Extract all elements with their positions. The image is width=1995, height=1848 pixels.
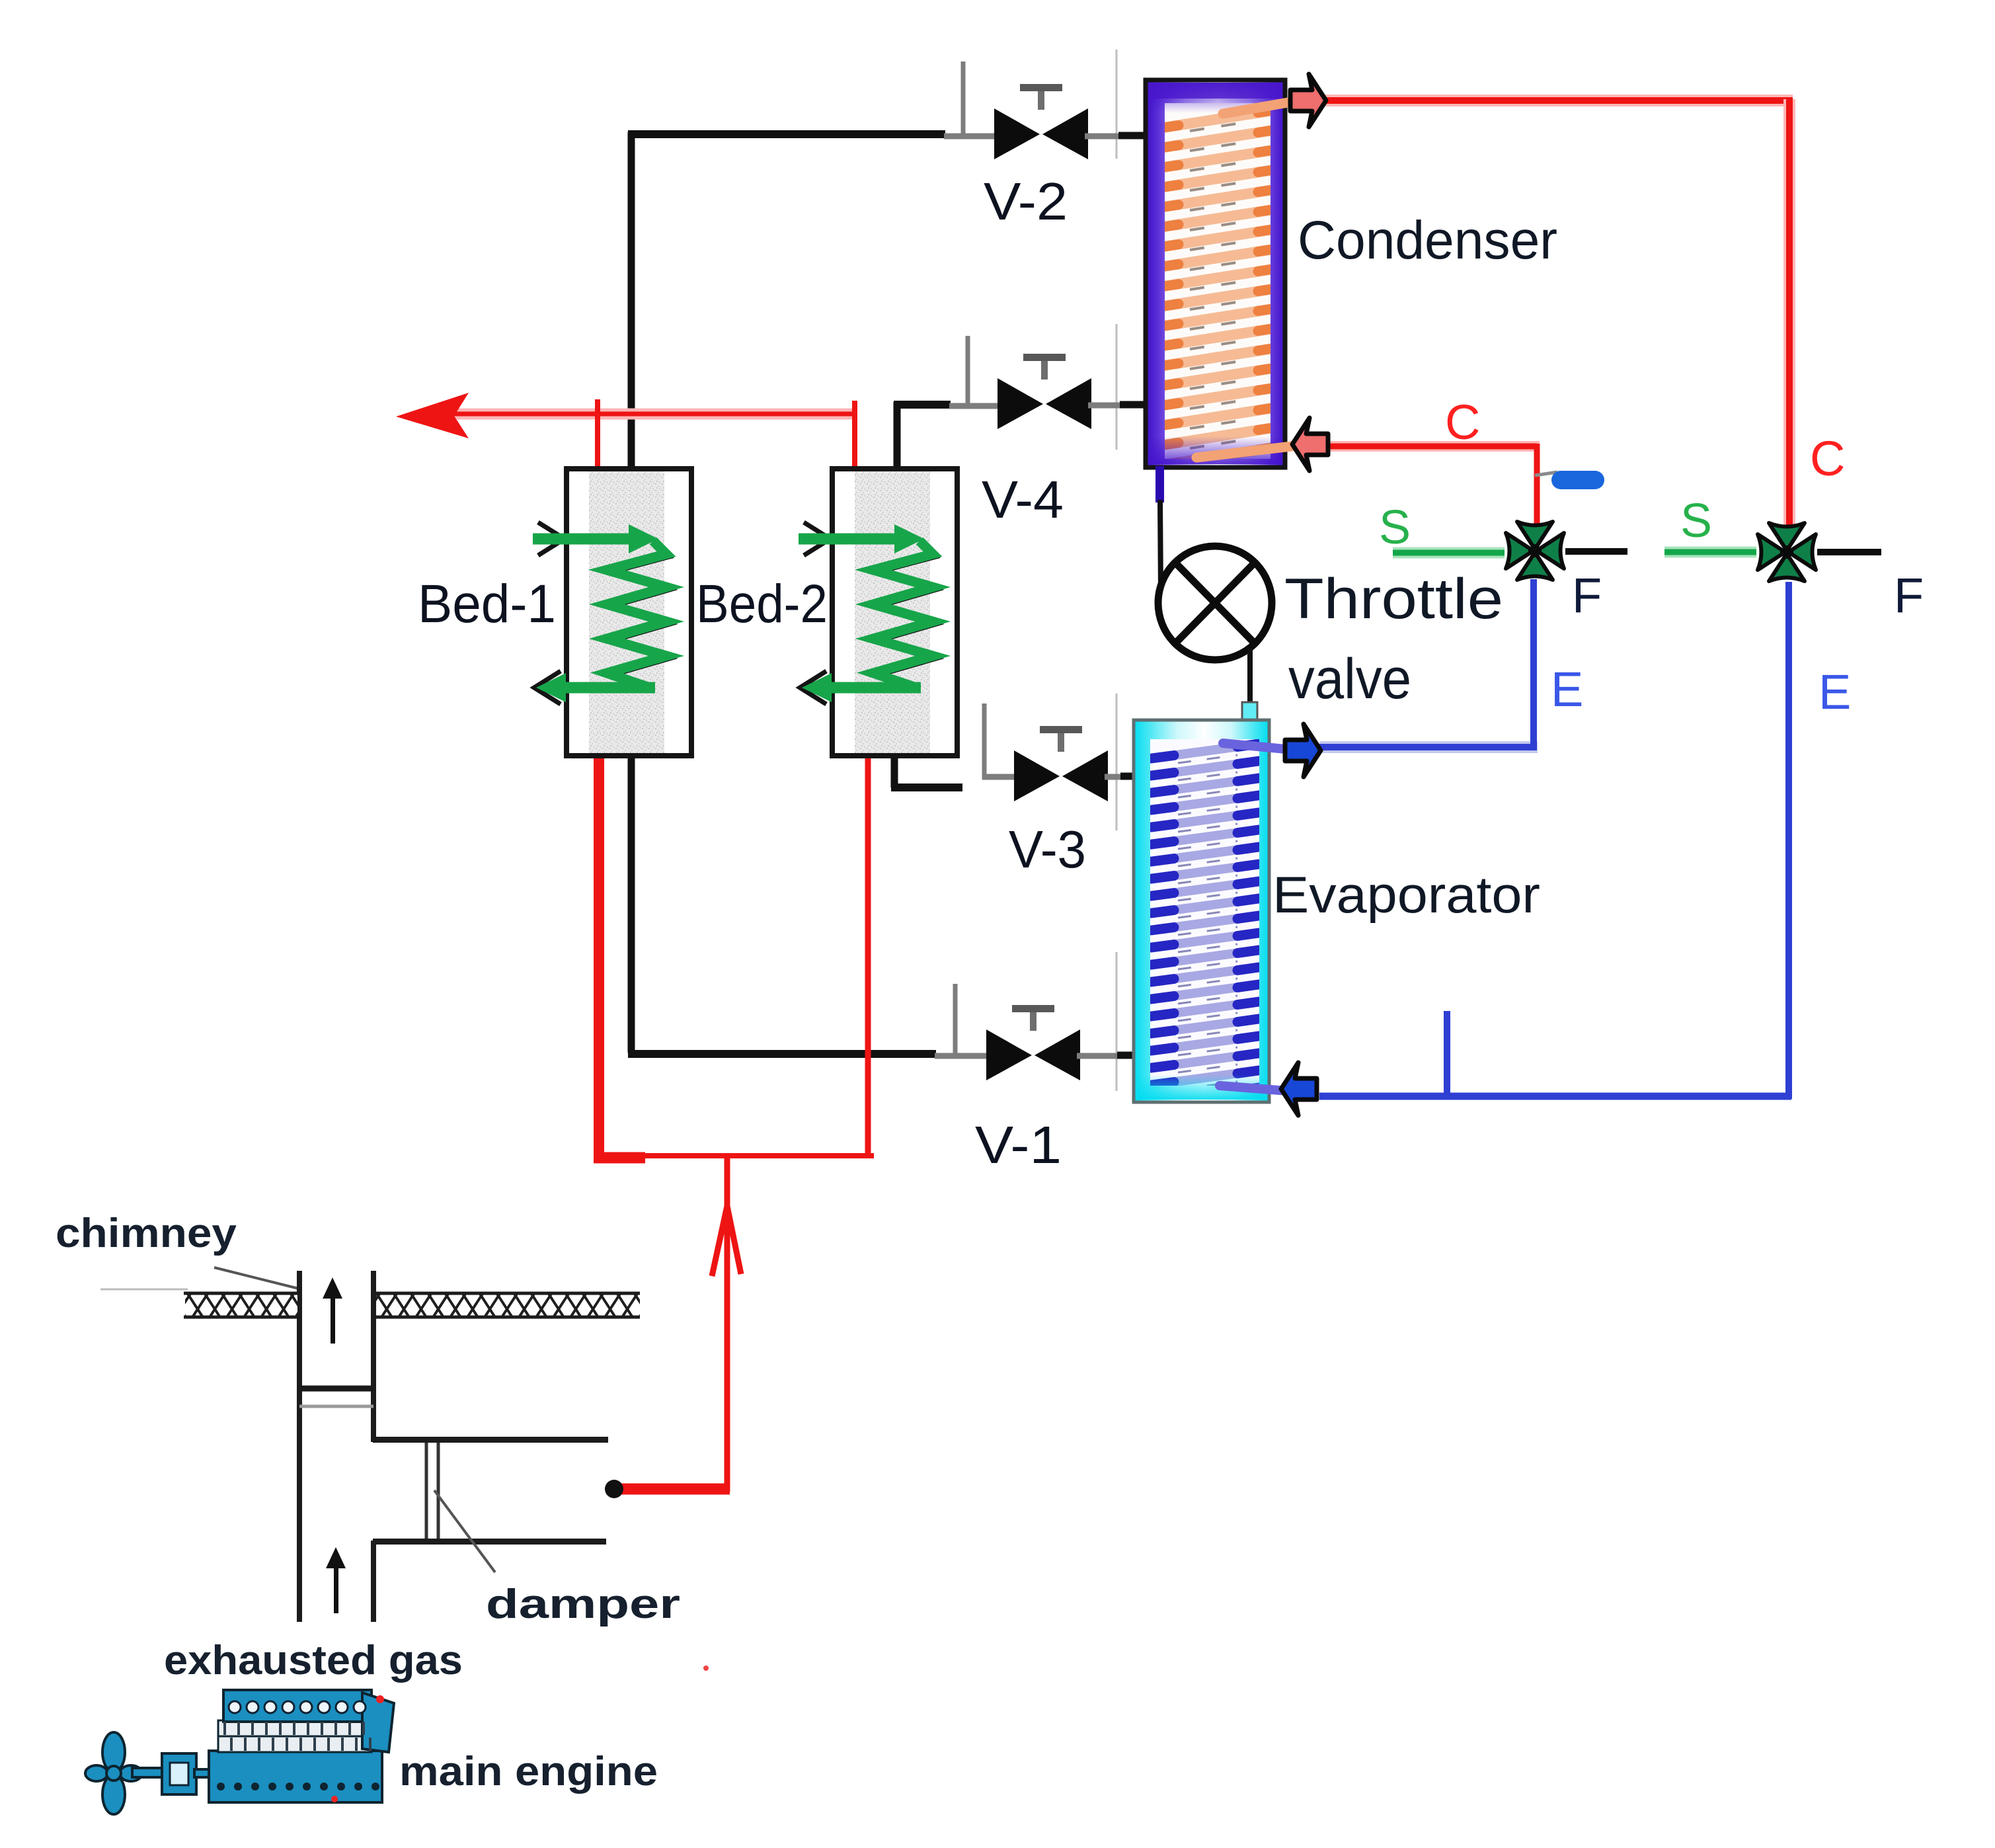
wire gray elbow before V-3 xyxy=(982,703,1019,780)
adsorbent bed Bed-2 vessel xyxy=(832,469,957,756)
valve V-4 xyxy=(997,354,1091,429)
wire chimney damper plates xyxy=(299,1388,373,1406)
wire red pipe condenser bottom inlet from valve-1 riser xyxy=(1327,444,1540,524)
wire blue pipe valve-2 down to evaporator bottom xyxy=(1319,582,1791,1099)
wire Bed-1 green outlet arrow xyxy=(534,671,655,704)
four-way valve right xyxy=(1758,523,1816,581)
svg-text:Evaporator: Evaporator xyxy=(1272,865,1540,924)
coil evaporator helix xyxy=(1150,739,1259,1102)
wire red pipe Bed-2 bottom down xyxy=(865,739,871,1157)
svg-text:exhausted gas: exhausted gas xyxy=(164,1638,463,1683)
condenser top and bottom purple bands xyxy=(1149,83,1282,464)
svg-text:Bed-2: Bed-2 xyxy=(696,574,828,634)
wire red pipe Bed-1 bottom down xyxy=(594,744,604,1158)
wire black pipe Bed-1 bottom to V-1 xyxy=(628,756,936,1054)
wire condenser coil inlet tube bottom xyxy=(1196,446,1297,458)
wire gray elbow before V-1 xyxy=(935,984,989,1058)
wire green S line into valve-1 xyxy=(1393,547,1505,559)
wire black pipe Bed-1 top to V-2 xyxy=(628,132,945,471)
wire black pipe Bed-2 top to V-4 xyxy=(894,402,951,471)
wire branch damper xyxy=(426,1443,438,1539)
wire chimney gas up-arrow upper xyxy=(323,1277,342,1344)
exhaust branch duct walls xyxy=(373,1437,608,1545)
evaporator bottom cyan band xyxy=(1137,1074,1266,1100)
wire black F line from valve-1 xyxy=(1565,548,1627,555)
svg-text:C: C xyxy=(1810,431,1845,486)
svg-text:F: F xyxy=(1894,568,1924,623)
svg-text:damper: damper xyxy=(486,1582,680,1627)
svg-text:S: S xyxy=(1680,495,1712,547)
wire red hot-water top bus with left arrow xyxy=(396,393,857,438)
node evaporator top outlet arrow xyxy=(1285,724,1321,777)
wire gray elbow before V-4 xyxy=(949,336,1002,409)
valve V-2 xyxy=(994,84,1088,159)
wire condenser coil outlet tube top xyxy=(1223,100,1300,114)
svg-text:chimney: chimney xyxy=(56,1211,237,1256)
evaporator vessel xyxy=(1134,702,1269,1102)
wire red riser from exhaust duct with up arrow xyxy=(615,1153,741,1492)
svg-text:S: S xyxy=(1379,501,1411,554)
wire red stub into Bed-2 top xyxy=(852,401,857,471)
svg-text:Throttle: Throttle xyxy=(1284,567,1503,631)
svg-text:E: E xyxy=(1551,662,1583,717)
svg-text:V-4: V-4 xyxy=(982,470,1064,529)
node condenser top outlet arrow xyxy=(1290,74,1326,127)
wire evaporator coil inlet tube bottom xyxy=(1220,1086,1288,1091)
main engine details xyxy=(217,1695,384,1802)
wire Bed-1 green inlet arrow xyxy=(533,522,658,555)
wire blue pipe evaporator top outlet to valve-1 xyxy=(1319,579,1538,750)
wire V-4 to condenser xyxy=(1088,405,1148,405)
deck hatched band left xyxy=(184,1293,297,1317)
wire condenser bottom spout xyxy=(1155,466,1164,594)
wire red stub into Bed-1 top xyxy=(595,399,600,472)
condenser vessel xyxy=(1146,80,1285,467)
wire V-3 to evaporator xyxy=(1105,776,1136,777)
wire chimney gas up-arrow lower xyxy=(326,1547,346,1613)
valve V-3 xyxy=(1014,726,1108,801)
svg-text:Bed-1: Bed-1 xyxy=(418,574,556,634)
four-way valve left xyxy=(1506,522,1564,580)
wire green S line into valve-2 xyxy=(1664,547,1756,558)
wire chimney pointer line xyxy=(214,1267,301,1289)
wire black pipe Bed-2 bottom to V-3 xyxy=(891,756,962,787)
wire blue stub on bottom line xyxy=(1444,1011,1450,1096)
svg-text:Condenser: Condenser xyxy=(1298,210,1557,270)
svg-text:C: C xyxy=(1445,395,1480,450)
coil Bed-2 heat-exchanger zigzag xyxy=(873,541,936,690)
valve V-1 xyxy=(986,1005,1080,1080)
adsorbent bed Bed-1 vessel xyxy=(567,469,691,756)
wire Bed-2 green outlet arrow xyxy=(800,671,921,704)
wire gray elbow before V-2 xyxy=(944,61,997,138)
stray red speck xyxy=(703,1666,709,1671)
wire Bed-2 green inlet arrow xyxy=(799,522,924,555)
wire damper pointer line xyxy=(434,1490,495,1572)
chimney duct walls xyxy=(297,1271,376,1622)
svg-text:E: E xyxy=(1819,664,1851,719)
coil Bed-1 heat-exchanger zigzag xyxy=(607,541,670,690)
svg-text:valve: valve xyxy=(1288,647,1411,711)
throttle valve symbol xyxy=(1158,546,1272,660)
node condenser bottom inlet arrow xyxy=(1292,418,1328,471)
wire red pipe condenser top outlet to right riser xyxy=(1325,97,1793,526)
node evaporator bottom inlet arrow xyxy=(1281,1063,1317,1115)
wire throttle valve outlet to evaporator xyxy=(1247,648,1253,722)
wire small blue dash marker xyxy=(1535,471,1604,489)
svg-text:V-3: V-3 xyxy=(1009,820,1086,879)
svg-text:F: F xyxy=(1572,568,1602,623)
deck hatched band right xyxy=(376,1293,640,1317)
wire V-1 to evaporator xyxy=(1077,1055,1136,1056)
wire faint-guide-segments xyxy=(100,50,1116,1289)
wire black F line from valve-2 xyxy=(1817,549,1881,555)
wire red bottom bus xyxy=(594,1156,874,1158)
label Throttle valve xyxy=(1284,567,1503,711)
coil condenser helix xyxy=(1163,103,1273,468)
svg-text:main engine: main engine xyxy=(399,1749,658,1794)
wire evaporator coil outlet tube top xyxy=(1223,743,1286,749)
svg-text:V-1: V-1 xyxy=(975,1115,1062,1174)
svg-text:V-2: V-2 xyxy=(984,172,1068,231)
wire V-2 to condenser xyxy=(1085,136,1148,136)
main engine drawing xyxy=(85,1690,394,1814)
node red line tap on exhaust duct xyxy=(605,1480,623,1498)
